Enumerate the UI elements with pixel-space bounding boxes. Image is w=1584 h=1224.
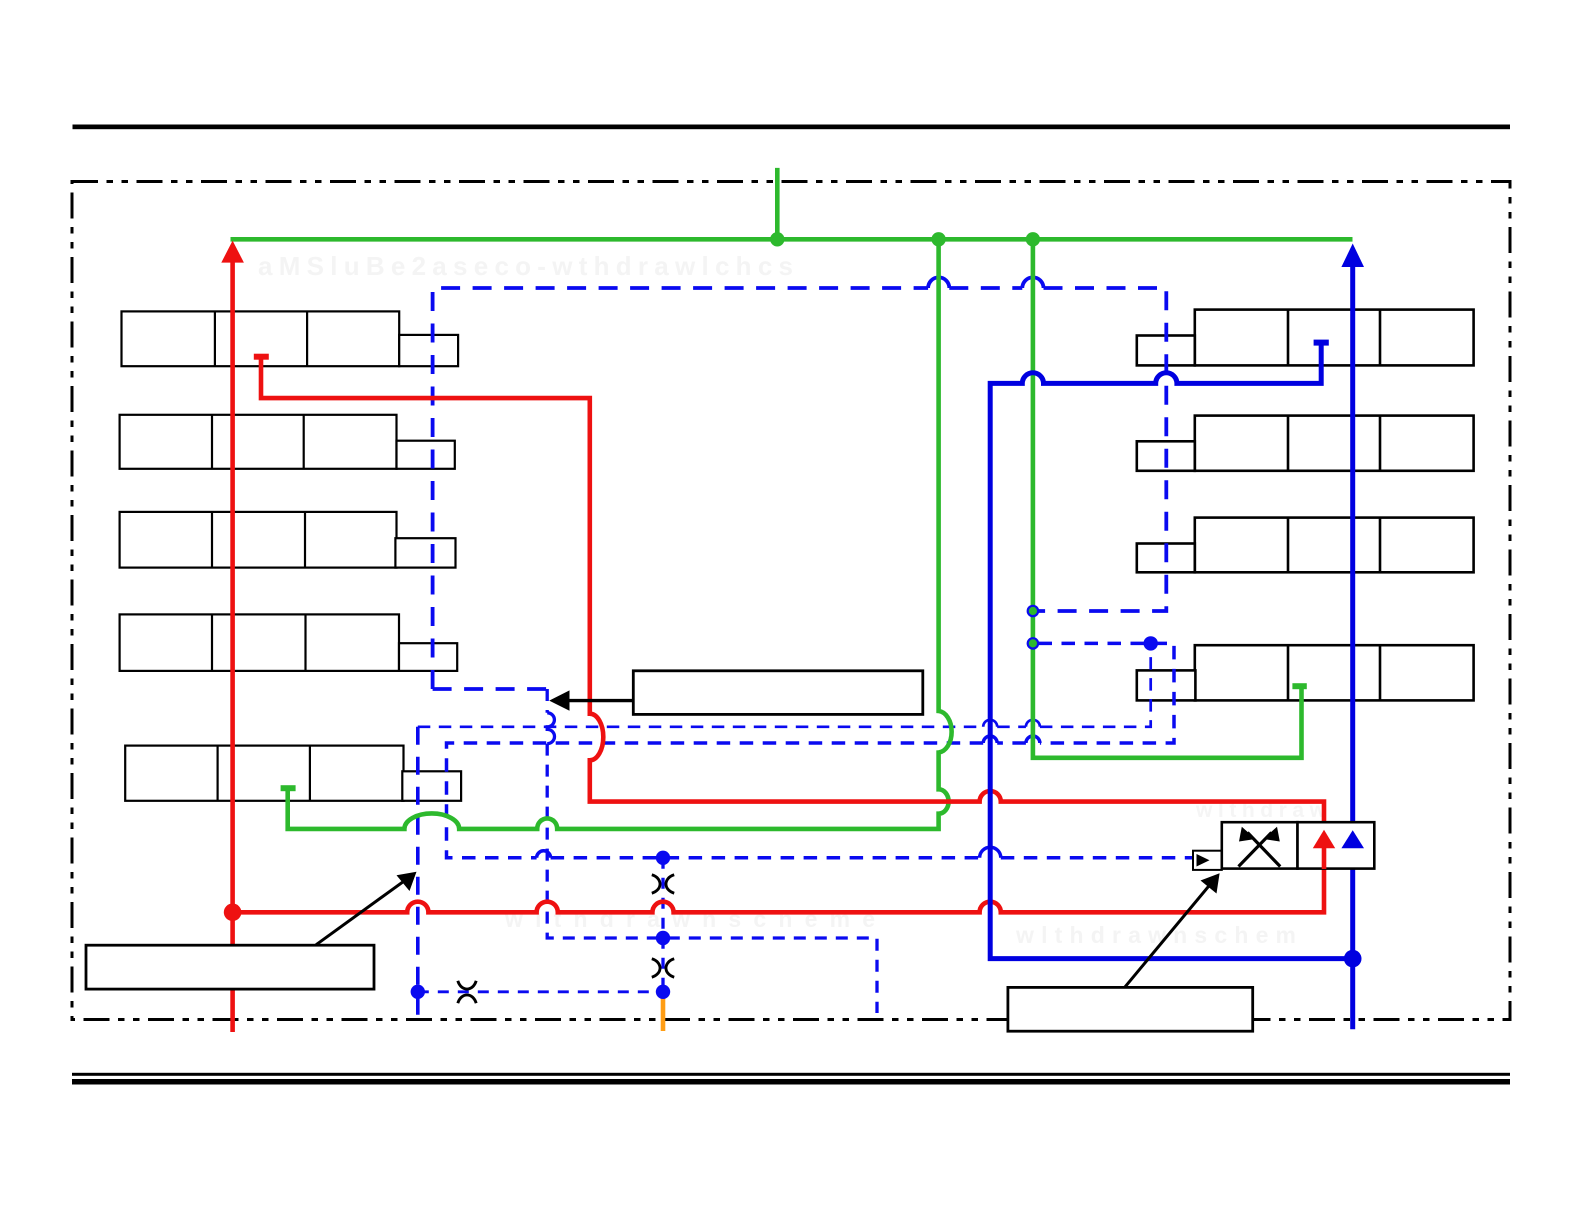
green branch 2: vertical to R4 probe [1033,239,1302,758]
green probe cap R4 [1292,683,1306,689]
hop arcs h858 over v547 and blue riser [537,847,1001,858]
bottom double rule thin [72,1073,1510,1076]
box R4 body [1195,645,1474,700]
blue return riser lower [1350,848,1355,1029]
box R3 tail [1137,544,1195,573]
tap circle 1 [1028,606,1038,616]
coupling v663 lower [652,959,674,977]
dashed line v547, then h938 and v877 [547,689,877,1013]
valve crossed arrow b [1239,827,1280,867]
callout box bottom-right [1008,987,1253,1031]
dashed stub h689 [433,687,548,691]
hop arc h288 over green C [1022,277,1043,288]
tap circle 2 [1028,638,1038,648]
box R4 divider b [1379,645,1382,700]
dashed circuit from circle2: h643 / v1174 / h743 / v446 / h858 to valve pilot [447,643,1194,857]
dashed line h992 [418,990,663,993]
green supply stub to boundary [775,168,780,239]
box L2 row2 divider a [211,415,213,469]
callout arrow to valve [1125,873,1220,987]
watermark band 1 [258,251,793,281]
node dot h858 [656,851,670,865]
callout box bottom-left [86,945,374,989]
box L1 row1 body [122,311,400,366]
box L2 row2 divider b [303,415,305,469]
callout box middle [633,671,923,715]
box R2 divider b [1379,416,1382,471]
box L4 row4 divider a [211,614,213,671]
valve pilot triangle [1197,854,1210,867]
node dot h643 [1144,636,1158,650]
box L3 row3 tail [395,538,455,567]
box L2 row2 tail [397,441,455,469]
blue return riser upper [1350,266,1355,822]
top title rule [73,125,1511,130]
red main riser arrowhead [221,241,244,263]
node dot v417 low [411,985,425,999]
box L4 row4 divider b [304,614,306,671]
box R4 divider a [1287,645,1290,700]
box R1 tail [1137,336,1195,366]
red bottom run with hops [233,869,1324,912]
box L4 row4 tail [399,643,457,671]
green junction dot C [1026,232,1040,246]
box R2 tail [1137,441,1195,471]
box R3 divider b [1379,518,1382,573]
valve cell crossed [1222,822,1298,868]
box R1 divider b [1379,310,1382,366]
box R1 divider a [1287,310,1290,366]
box L3 row3 divider a [211,512,213,568]
box L5 row5 body [125,746,403,801]
bottom double rule thick [72,1079,1510,1085]
green junction dot A [770,232,784,246]
box R2 body [1195,416,1474,471]
hop arc h288 over green B [928,277,949,288]
callout arrow to dashed corner [549,690,633,710]
box R1 body [1195,310,1474,366]
dashed loop top: v432 / h288 / v1166 / h611 [433,288,1167,689]
red main riser [230,262,235,1033]
box L5 row5 divider a [217,746,219,801]
valve blue flow arrow [1341,830,1364,848]
box L3 row3 divider b [304,512,306,568]
svg-text:wlthdrawnschem: wlthdrawnschem [1015,922,1296,948]
red probe branch: row1 cap stem / h398 / v589 with hop / h801 to valve [261,357,1324,823]
hop arcs v547 over h727 and h743 [547,713,554,744]
box L3 row3 body [120,512,397,568]
box R3 body [1195,518,1474,573]
valve crossed arrow a [1239,827,1280,867]
blue return riser arrowhead [1341,244,1364,268]
box L2 row2 body [120,415,397,469]
blue junction dot [1344,950,1362,968]
green supply bus [231,237,1353,242]
valve pilot box [1193,851,1222,870]
box L5 row5 tail [402,771,461,801]
orange drain stub [661,997,666,1032]
green branch 1: vertical with hops, bottom run to row5 probe [288,239,952,829]
box R3 divider a [1287,518,1290,573]
blue probe branch: R1 cap stem / h383 with hops / v990 / h958 [990,345,1352,959]
dashed line v663 [661,858,664,992]
box L1 row1 divider a [214,311,216,366]
box L1 row1 tail [399,335,458,366]
coupling v663 upper [652,875,674,893]
red probe cap row1 [254,354,269,360]
valve cell straight [1298,822,1375,868]
hop arcs h743 over green branch2 and blue riser [983,736,1040,743]
node dot v663 low [656,985,670,999]
system boundary (dash-dot-dot frame) [72,182,1510,1020]
box R2 divider a [1287,416,1290,471]
box L5 row5 divider b [309,746,311,801]
hop arcs h727 over blue riser and green branch2 [983,720,1040,727]
red junction dot [224,904,242,922]
green probe cap row5 [281,785,296,791]
green junction dot B [931,232,945,246]
dashed line v417 lower [416,727,420,1019]
box R4 tail [1137,670,1196,700]
svg-text:aMSluBe2aseco-wthdrawlchcs: aMSluBe2aseco-wthdrawlchcs [258,251,793,281]
dashed thin line h727 rising to node at 1150 [418,643,1151,726]
box L1 row1 divider b [306,311,308,366]
valve red flow arrow [1313,830,1335,869]
box L4 row4 body [120,614,399,671]
callout arrow to v417 [316,872,417,945]
node dot v663 mid [656,931,670,945]
coupling h992 [458,981,476,1003]
blue probe cap R1 [1314,340,1329,346]
